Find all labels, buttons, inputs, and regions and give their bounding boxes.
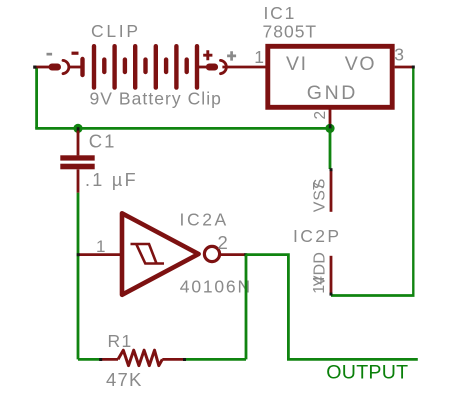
battery pin name minus (gray) (47, 53, 53, 56)
hysteresis symbol (131, 244, 165, 264)
wire R1 left horizontal (78, 358, 101, 361)
svg-text:7805T: 7805T (263, 21, 318, 41)
svg-text:9V Battery Clip: 9V Battery Clip (90, 88, 222, 108)
wire C1 bottom to R1 (left vertical) (77, 193, 80, 360)
IC1 pin VO wire (pin 3) (395, 66, 414, 69)
svg-text:14: 14 (311, 276, 328, 294)
junction dot at C1 top (73, 124, 82, 134)
pin 2 wire (220, 253, 246, 256)
svg-text:1: 1 (96, 237, 105, 256)
output bubble (204, 246, 219, 261)
inverter IC2A (79, 213, 245, 294)
black dot VO pin end (412, 66, 415, 69)
plus mark (203, 50, 212, 60)
black dot R1 left (99, 358, 102, 361)
svg-text:2: 2 (218, 232, 228, 253)
wire R1 right horizontal (184, 358, 246, 361)
svg-text:GND: GND (307, 82, 358, 104)
VDD pin wire (14) (330, 256, 333, 295)
svg-text:VI: VI (286, 53, 308, 75)
black dot VDD pin bottom (330, 293, 333, 296)
svg-text:OUTPUT: OUTPUT (326, 361, 408, 383)
svg-text:40106N: 40106N (180, 277, 252, 297)
wire VO down right side (412, 67, 414, 296)
cell plates short (102, 60, 106, 72)
junction dot under IC1 GND (325, 124, 334, 133)
svg-text:.1 µF: .1 µF (85, 170, 138, 190)
black end dot battery minus pin (33, 66, 36, 69)
ground rail wire (35, 127, 330, 130)
svg-text:IC2P: IC2P (293, 226, 342, 246)
triangle body (122, 213, 199, 294)
negative snap stud (49, 64, 62, 71)
IC1 pin GND wire (pin 2) (329, 109, 332, 128)
op IC1 regulator 7805T box (268, 46, 392, 107)
wire (35, 66, 49, 69)
black dot VSS pin top (330, 168, 333, 171)
svg-text:47K: 47K (106, 369, 143, 390)
wire VDD bottom horizontal (331, 294, 415, 297)
cell plates long (92, 46, 96, 87)
svg-text:VO: VO (345, 53, 376, 75)
black dot pin2 end (244, 253, 247, 256)
wire (70, 66, 81, 69)
minus mark (72, 52, 79, 55)
wire battery minus vertical (35, 66, 38, 128)
terminal plate (80, 59, 84, 75)
negative snap socket arc (63, 60, 69, 73)
positive snap stud (206, 64, 218, 71)
svg-text:CLIP: CLIP (91, 21, 141, 41)
svg-text:R1: R1 (108, 331, 133, 351)
black dot pin1 junction (77, 253, 80, 256)
resistor R1 (101, 350, 185, 365)
battery pin name plus (gray) (227, 51, 236, 60)
output net wire (246, 255, 418, 360)
svg-text:1: 1 (254, 47, 264, 67)
wire (199, 66, 206, 69)
svg-text:IC2A: IC2A (180, 209, 229, 229)
wire GND junction to VSS pin (329, 128, 332, 169)
capacitor C1 (60, 131, 94, 193)
VSS pin wire (7) (330, 170, 333, 212)
R1 feedback vertical wire (245, 255, 248, 360)
svg-text:IC1: IC1 (264, 3, 297, 23)
black dot R1 right (183, 358, 186, 361)
battery clip CLIP (35, 46, 226, 87)
positive snap socket arc (221, 60, 227, 73)
IC1 pin VI wire (pin 1) (222, 66, 266, 69)
svg-text:C1: C1 (89, 130, 117, 151)
svg-text:3: 3 (394, 45, 404, 65)
svg-text:2: 2 (312, 111, 329, 120)
power gate IC2P (330, 170, 333, 296)
svg-text:7: 7 (311, 182, 328, 191)
pin 1 wire (79, 253, 120, 256)
